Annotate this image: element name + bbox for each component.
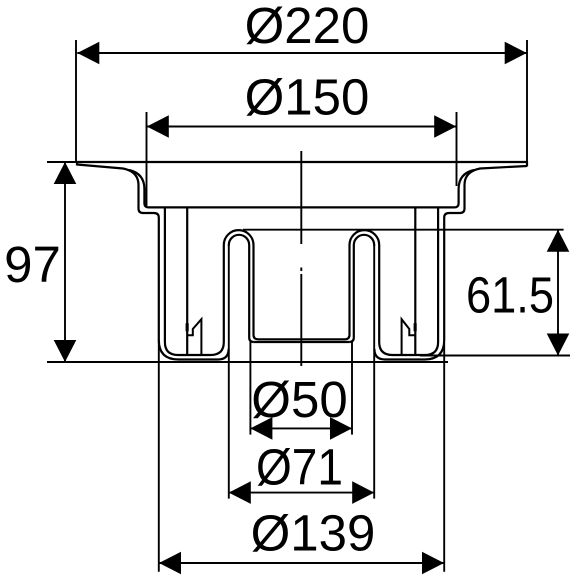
- left outer wall + outer bowl bottom: [159, 218, 229, 360]
- center funnel bottom plate lower line: [254, 341, 350, 343]
- right flap sail: [402, 319, 415, 355]
- dim 97 top extension: [47, 161, 80, 163]
- svg-text:61.5: 61.5: [466, 267, 554, 324]
- ceiling (flange underside interior) with inner S-bends: [129, 170, 474, 207]
- svg-text:Ø150: Ø150: [245, 69, 370, 126]
- left baffle (dip tube wall): [186, 207, 188, 354]
- dim 61.5 line: [557, 230, 559, 356]
- dim Ø50 line: [250, 427, 352, 429]
- right brim underside + S-bend + shelf: [444, 166, 527, 218]
- dim Ø139 extension lines: [158, 340, 160, 572]
- svg-text:Ø71: Ø71: [256, 439, 343, 496]
- inner wall / bowl / hairpin arches / center funnel top path: [165, 207, 438, 355]
- dim 61.5 top reference line (funnel top tangent): [243, 229, 564, 231]
- Ø71 arrows: [229, 481, 251, 504]
- left flap sail: [187, 319, 202, 355]
- dim Ø71 extension lines (merged with hairpin inner legs): [228, 246, 230, 499]
- flange right edge stub: [526, 161, 528, 167]
- dim Ø139 line: [159, 562, 444, 564]
- svg-text:Ø139: Ø139: [251, 505, 376, 562]
- dim Ø220 extension lines: [75, 40, 77, 161]
- right hairpin inner arc: [349, 235, 374, 342]
- right outer wall + outer bowl bottom: [374, 218, 444, 360]
- svg-text:Ø50: Ø50: [251, 371, 347, 428]
- dim 61.5 bottom reference line: [420, 355, 570, 357]
- dim Ø50 extension lines: [249, 342, 251, 435]
- dim 97 bottom reference line: [47, 361, 448, 363]
- dim 97 line: [64, 162, 66, 362]
- svg-text:Ø220: Ø220: [245, 0, 370, 54]
- Ø220 arrows: [77, 42, 99, 65]
- 97 arrows: [54, 162, 77, 184]
- Ø50 arrows: [250, 417, 272, 440]
- flange left edge stub: [76, 161, 78, 166]
- Ø139 arrows: [159, 552, 181, 575]
- 61.5 arrows: [547, 230, 570, 252]
- Ø150 arrows: [147, 115, 169, 138]
- flange top surface line: [77, 161, 527, 163]
- dim Ø150 line: [147, 126, 456, 128]
- svg-text:97: 97: [4, 236, 61, 293]
- dim Ø71 line: [229, 492, 374, 494]
- left brim underside + S-bend + shelf + outer wall top: [77, 165, 159, 218]
- dim Ø220 line: [77, 52, 526, 54]
- left hairpin inner arc: [229, 235, 254, 342]
- dim Ø150 extension lines: [146, 112, 148, 207]
- left flap seal bar: [186, 323, 189, 331]
- right flap seal bar: [414, 323, 417, 331]
- right baffle (dip tube wall): [414, 207, 416, 354]
